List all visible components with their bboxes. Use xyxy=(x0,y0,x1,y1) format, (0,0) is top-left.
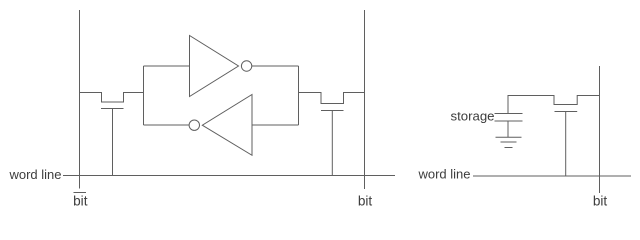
svg-text:bit: bit xyxy=(73,194,88,209)
svg-text:word line: word line xyxy=(417,167,470,182)
svg-text:bit: bit xyxy=(358,194,373,209)
svg-text:storage: storage xyxy=(451,109,495,124)
svg-text:word line: word line xyxy=(8,167,61,182)
svg-text:bit: bit xyxy=(593,194,608,209)
